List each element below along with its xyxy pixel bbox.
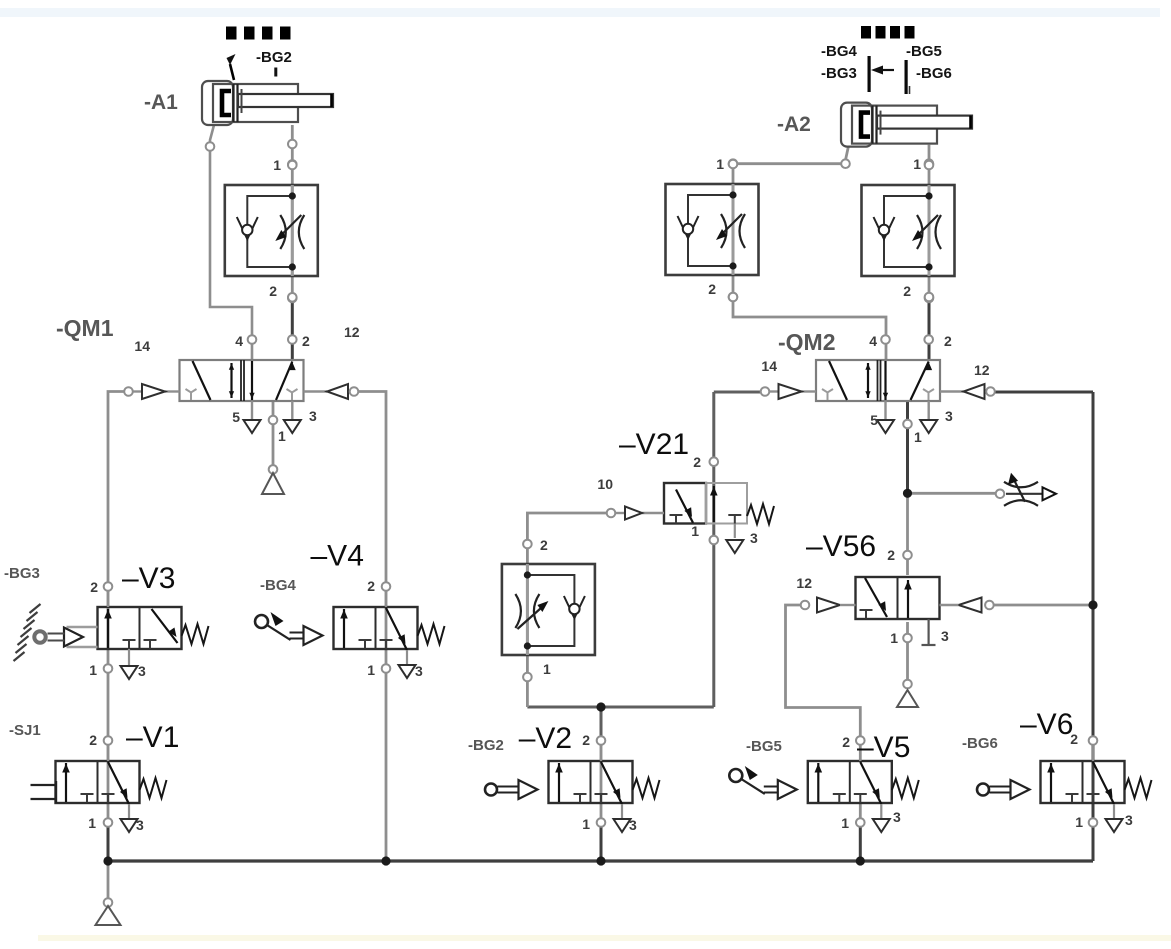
svg-text:2: 2	[367, 578, 375, 594]
svg-text:2: 2	[1070, 731, 1078, 747]
svg-text:1: 1	[913, 156, 921, 172]
svg-text:-QM2: -QM2	[778, 329, 836, 355]
svg-text:–V56: –V56	[806, 530, 876, 563]
svg-text:-BG3: -BG3	[4, 565, 40, 582]
svg-text:2: 2	[903, 283, 911, 299]
svg-text:-BG5: -BG5	[906, 43, 942, 60]
svg-text:-BG4: -BG4	[821, 43, 857, 60]
svg-text:3: 3	[136, 817, 144, 833]
svg-text:2: 2	[842, 734, 850, 750]
svg-text:3: 3	[945, 408, 953, 424]
svg-text:2: 2	[582, 732, 590, 748]
svg-text:1: 1	[841, 815, 849, 831]
svg-text:14: 14	[761, 358, 777, 374]
svg-text:2: 2	[708, 281, 716, 297]
svg-text:1: 1	[914, 429, 922, 445]
svg-text:3: 3	[415, 663, 423, 679]
svg-text:1: 1	[691, 523, 699, 539]
svg-text:3: 3	[750, 530, 758, 546]
svg-text:-A1: -A1	[144, 91, 178, 114]
svg-text:–V4: –V4	[311, 540, 364, 573]
svg-text:1: 1	[273, 157, 281, 173]
svg-text:3: 3	[893, 809, 901, 825]
svg-text:–V6: –V6	[1020, 708, 1073, 741]
svg-text:2: 2	[540, 537, 548, 553]
svg-text:14: 14	[134, 338, 150, 354]
svg-text:-BG6: -BG6	[962, 735, 998, 752]
svg-text:5: 5	[870, 412, 878, 428]
svg-text:2: 2	[90, 579, 98, 595]
svg-text:1: 1	[367, 662, 375, 678]
svg-text:2: 2	[302, 333, 310, 349]
svg-text:-BG6: -BG6	[916, 65, 952, 82]
svg-text:2: 2	[269, 283, 277, 299]
svg-text:1: 1	[890, 630, 898, 646]
svg-text:2: 2	[693, 454, 701, 470]
svg-text:–V1: –V1	[126, 721, 179, 754]
svg-text:1: 1	[582, 816, 590, 832]
svg-text:1: 1	[89, 662, 97, 678]
svg-text:1: 1	[716, 156, 724, 172]
svg-text:-BG3: -BG3	[821, 65, 857, 82]
svg-text:3: 3	[941, 628, 949, 644]
svg-text:1: 1	[278, 428, 286, 444]
svg-text:-BG4: -BG4	[260, 577, 296, 594]
svg-text:10: 10	[597, 476, 613, 492]
svg-text:-BG5: -BG5	[746, 738, 782, 755]
svg-text:3: 3	[309, 408, 317, 424]
svg-text:12: 12	[344, 324, 360, 340]
svg-text:–V21: –V21	[619, 428, 689, 461]
svg-text:1: 1	[543, 661, 551, 677]
svg-text:-BG2: -BG2	[468, 737, 504, 754]
svg-text:3: 3	[138, 663, 146, 679]
svg-text:12: 12	[974, 362, 990, 378]
svg-text:3: 3	[1125, 812, 1133, 828]
svg-text:2: 2	[887, 547, 895, 563]
svg-text:4: 4	[869, 333, 877, 349]
svg-text:2: 2	[89, 732, 97, 748]
svg-text:3: 3	[629, 817, 637, 833]
svg-text:4: 4	[235, 333, 243, 349]
svg-text:-A2: -A2	[777, 113, 811, 136]
svg-text:–V3: –V3	[122, 562, 175, 595]
svg-text:12: 12	[796, 575, 812, 591]
svg-text:1: 1	[1075, 814, 1083, 830]
svg-text:–V2: –V2	[519, 722, 572, 755]
svg-text:-QM1: -QM1	[56, 315, 114, 341]
svg-text:-SJ1: -SJ1	[9, 722, 41, 739]
svg-text:1: 1	[88, 815, 96, 831]
svg-text:5: 5	[232, 409, 240, 425]
svg-text:2: 2	[944, 333, 952, 349]
svg-text:–V5: –V5	[857, 731, 910, 764]
svg-text:-BG2: -BG2	[256, 49, 292, 66]
